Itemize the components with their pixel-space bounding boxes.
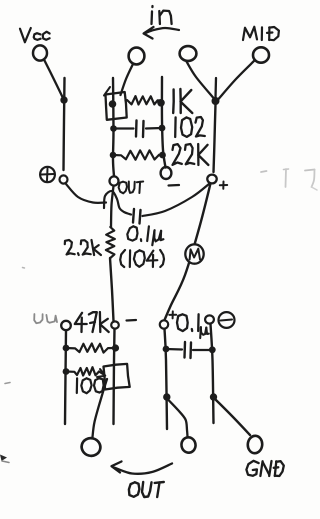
wire OUT node down (111, 186, 114, 227)
capacitor 0.1u out lead right (193, 349, 212, 351)
junction cap102 left (110, 125, 117, 132)
label GND (246, 461, 283, 476)
junction 47k left (63, 345, 70, 352)
resistor 100 arrow into trimmer (97, 369, 105, 377)
junction MID node (212, 97, 220, 105)
wire top-right rail (162, 77, 166, 168)
label in (152, 6, 172, 24)
terminal Vcc (33, 45, 47, 60)
label 22K value (173, 144, 209, 165)
terminal MID (253, 47, 269, 62)
resistor 2.2k body (106, 227, 115, 258)
wire minus output right down (211, 324, 214, 423)
label MID (243, 27, 279, 40)
resistor 100 body (66, 367, 99, 375)
terminal GND (247, 435, 263, 454)
wire MID lead (219, 61, 255, 100)
label 2.2k value (65, 240, 101, 255)
stray mark left edge small dash (5, 383, 10, 384)
wire Vcc rail (64, 78, 65, 170)
capacitor 0.1u out plates (185, 342, 192, 358)
wire plus terminal to OUT node (66, 184, 106, 203)
motor symbol M letter (190, 249, 200, 260)
terminal plus input top (207, 175, 216, 184)
stray faint mark right 2 (284, 169, 289, 187)
resistor 47k body (66, 344, 115, 353)
terminal minus output right (205, 315, 214, 323)
wire top-left rail (113, 78, 114, 176)
junction inside box (109, 100, 117, 108)
label OUT (bottom) (129, 482, 164, 497)
wire in B lead (187, 62, 214, 99)
wire plus node to plus output (diagonal) (165, 184, 211, 321)
wire left output diagonal (169, 400, 188, 437)
wire minus output down (114, 329, 115, 424)
junction 100 left (63, 368, 70, 375)
wire MID node down to plus input (214, 104, 216, 172)
label Vcc (20, 28, 50, 42)
polarity symbol circled minus (219, 312, 235, 328)
label plus (top row) (220, 182, 227, 189)
wire right output diagonal (216, 400, 250, 435)
capacitor 102 lead left (114, 127, 134, 129)
stray faint dot left (23, 267, 25, 270)
junction 1K right (157, 99, 165, 107)
capacitor 102 lead right (146, 127, 162, 130)
polarity symbol circled plus (40, 167, 55, 182)
stray mark left edge (dark) (0, 455, 9, 463)
trimmer box RV1 (104, 364, 130, 390)
junction cap102 right (159, 125, 166, 132)
label 100 value (77, 378, 104, 393)
motor symbol M circle (185, 244, 203, 263)
wire hook over left rail (104, 191, 131, 215)
component box X1 (104, 87, 127, 120)
junction left output node (163, 393, 170, 400)
label 47k value (75, 312, 109, 332)
junction 22K left (110, 152, 117, 159)
wire in A lead (121, 64, 134, 95)
terminal OUT node (110, 176, 119, 185)
terminal OUT bottom (80, 436, 103, 458)
label OUT (node) (119, 182, 144, 194)
capacitor 0.1u out lead left (166, 348, 182, 351)
wire wiper to out terminal (93, 379, 108, 437)
terminal plus output (160, 320, 168, 328)
terminal minus input top (161, 167, 172, 179)
label out (faint, left) (34, 314, 57, 323)
arrow in (curved, pointing left) (144, 27, 179, 39)
label 1K value (173, 89, 192, 113)
capacitor 0.1u plates (133, 209, 141, 224)
terminal in B (180, 46, 197, 61)
terminal plus supply (60, 175, 68, 183)
wire cap to plus node (143, 184, 210, 217)
label 0.1u (bottom) (177, 314, 209, 338)
terminal minus output (111, 321, 119, 328)
stray faint mark right 3 (305, 170, 317, 191)
junction Vcc rail (60, 96, 67, 103)
resistor 22K body (113, 150, 163, 159)
capacitor 102 plates (136, 121, 144, 138)
resistor 1K body (126, 96, 161, 104)
label plus (bottom) (169, 311, 176, 318)
wire plus output down (165, 329, 168, 429)
arrow out (curved, pointing left) (112, 462, 173, 474)
wire 2.2k down to minus input (110, 258, 114, 321)
label 102 value (175, 117, 205, 137)
label minus (bottom left) (127, 319, 137, 322)
terminal output mid (180, 436, 196, 454)
junction out-cap left (163, 346, 170, 353)
label minus (top row) (169, 184, 180, 187)
wire bottom-left rail (65, 331, 66, 425)
terminal in A (129, 48, 145, 65)
label (104) value (120, 250, 164, 267)
junction right output node (210, 393, 217, 400)
stray faint mark right 1 (261, 171, 267, 172)
junction out-cap right (209, 346, 216, 353)
wire Vcc lead (44, 60, 63, 98)
wire stub above MID junction (214, 78, 217, 98)
junction 47k right (112, 344, 119, 351)
label 0.1u value (127, 226, 163, 245)
junction 22K right (159, 152, 166, 159)
terminal out feedback (61, 321, 71, 330)
